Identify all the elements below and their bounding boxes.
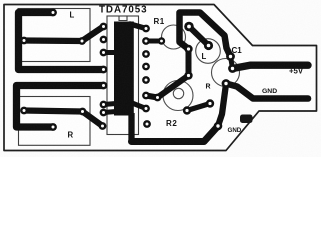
IC pad 5L — [100, 82, 108, 90]
connector R outline box — [19, 97, 91, 146]
pad L box left — [20, 37, 28, 45]
pad holes — [23, 11, 235, 129]
pad T — [226, 52, 235, 61]
wire: IC pad 7L to bar — [104, 112, 117, 113]
pad R box left — [20, 107, 28, 115]
pad G (GND) — [214, 122, 223, 131]
wire: IC pad 3L to bar — [104, 50, 117, 55]
pad B (GND) — [222, 79, 231, 88]
wire: L input link P to L pad — [189, 27, 209, 46]
IC pad 2R — [142, 37, 150, 45]
wire: IC pad 5L left rail down to R box bottom pad — [17, 86, 104, 128]
board outline — [4, 5, 317, 151]
pad S1 — [184, 45, 192, 53]
IC pad 5R — [142, 76, 150, 84]
capacitor C1 circle — [212, 59, 240, 87]
IC pad 3R — [142, 50, 150, 58]
pad P (L input) — [184, 22, 194, 32]
wire: apex run from S1 up over to pad T — [180, 13, 231, 57]
IC pad 1L — [100, 23, 108, 31]
wire: bar to IC pad 7R — [132, 103, 146, 109]
IC pad 4R — [142, 63, 150, 71]
pad L box top — [49, 9, 57, 17]
IC pad 6L — [100, 101, 108, 109]
IC pad 6R — [142, 92, 150, 100]
wire: IC pad 6L to bar — [104, 104, 117, 105]
IC pad 8L — [99, 122, 107, 130]
IC pad 2L — [100, 36, 108, 44]
IC pads left column — [20, 9, 237, 131]
pad R jumper right — [206, 99, 214, 107]
trimmer R2 inner circle — [173, 88, 183, 98]
IC pad 7L — [100, 109, 108, 117]
wire: bar to IC pad 1R — [130, 24, 146, 29]
pad L box mid — [78, 37, 86, 45]
wire: L box left pad to IC pad 1L — [24, 27, 104, 42]
pad node T2 — [154, 94, 162, 102]
IC pad 4L — [100, 66, 108, 74]
pad L input lower — [204, 41, 213, 50]
pad R box mid — [79, 108, 87, 116]
IC pad 8R — [143, 120, 151, 128]
pad R1 right — [158, 37, 165, 44]
wire: pad T to pad V link — [231, 57, 233, 69]
IC U1 outline — [107, 16, 139, 135]
wire: L box top pad to left rail down to IC pad 4L — [19, 13, 104, 70]
pad R jumper left — [183, 106, 191, 114]
pad S2 — [184, 71, 192, 79]
pad V (+5V) — [228, 64, 237, 73]
wire: node B to GND rail — [226, 84, 308, 99]
copper blob near tab corner — [240, 115, 253, 124]
IC U1 pin-1 notch — [119, 16, 127, 21]
connector L outline box — [18, 9, 90, 62]
trimmer R2 circle — [163, 81, 193, 111]
wire: +5V rail — [233, 65, 309, 68]
wire: R box left pad to IC pad 8L — [24, 111, 103, 127]
capacitor circle (L input) — [196, 39, 221, 64]
IC pad 7R — [142, 105, 150, 113]
IC ground plane bar — [114, 22, 134, 116]
wire: R input jumper bar — [187, 104, 210, 111]
pad R box bottom — [49, 123, 57, 131]
wire: bottom ground run to GND pad — [132, 126, 219, 142]
capacitor circle (near R1) — [162, 25, 186, 49]
wire: GND pad up to node B — [218, 84, 226, 126]
wire: R1 jumper bar — [146, 39, 162, 44]
scan noise overlay — [0, 0, 1, 1]
wire: S1 to S2 down to IC pad 6R — [146, 49, 189, 98]
IC pad 3L — [100, 49, 108, 57]
IC pad 1R — [142, 25, 150, 33]
wire: bar stub down to ground run — [128, 113, 134, 142]
